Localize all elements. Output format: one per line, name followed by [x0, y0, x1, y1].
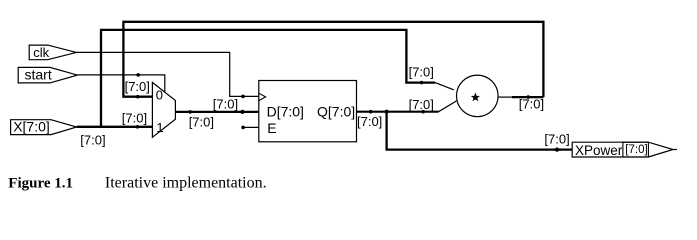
svg-text:E: E	[267, 120, 276, 136]
wire: register Q to multiplier lower input	[357, 111, 439, 113]
dot Q output	[369, 110, 373, 114]
wire: XPower pin tip stub	[673, 149, 677, 151]
wire: mux output to register D	[175, 111, 258, 113]
svg-text:[7:0]: [7:0]	[357, 114, 382, 129]
svg-text:X[7:0]: X[7:0]	[13, 119, 50, 135]
dot XPower branch junction	[385, 110, 389, 114]
wire: enable stub to register E	[242, 126, 259, 128]
wire: clk net	[76, 52, 258, 96]
wire: start net to mux select	[77, 75, 164, 92]
svg-text:XPower: XPower	[575, 143, 623, 158]
svg-text:[7:0]: [7:0]	[625, 144, 647, 156]
junction dots	[136, 73, 559, 152]
wire: multiplier upper input slant stub	[435, 83, 454, 90]
mux M1	[152, 82, 175, 137]
dot E input	[241, 126, 245, 130]
svg-text:[7:0]: [7:0]	[80, 132, 105, 147]
wire: X pin to mux input 1	[77, 126, 153, 128]
svg-text:[7:0]: [7:0]	[213, 97, 238, 112]
svg-text:Iterative implementation.: Iterative implementation.	[105, 174, 267, 191]
svg-text:[7:0]: [7:0]	[544, 131, 569, 146]
dot clk at register	[241, 95, 245, 99]
wire: multiplier lower input slant stub	[439, 101, 457, 112]
dot start-select	[136, 73, 140, 77]
input pin start	[18, 67, 77, 83]
svg-text:Figure 1.1: Figure 1.1	[8, 175, 73, 191]
svg-text:D[7:0]: D[7:0]	[267, 104, 304, 120]
wire: multiplier output bus	[512, 96, 543, 98]
svg-text:1: 1	[156, 120, 163, 135]
multiplier U2	[457, 75, 499, 117]
dot multiplier upper input	[420, 81, 424, 85]
dot mux output	[188, 110, 192, 114]
bus width labels [7:0]	[80, 64, 569, 147]
input pin clk	[29, 45, 76, 60]
wire: multiplier output thin stub	[498, 96, 513, 98]
dot mux1 input	[136, 125, 140, 129]
wire: X bus line (X pin up and across to multiplier upper input)	[101, 30, 435, 127]
wire: XPower branch from Q wire down and right to output pin	[387, 112, 573, 150]
svg-text:start: start	[25, 66, 52, 82]
svg-text:[7:0]: [7:0]	[519, 97, 544, 112]
dot D input	[240, 110, 244, 114]
dot XPower pin input	[555, 148, 559, 152]
dot multiplier lower input	[421, 110, 425, 114]
svg-text:Q[7:0]: Q[7:0]	[317, 104, 355, 120]
dot multiplier output	[526, 95, 530, 99]
svg-text:[7:0]: [7:0]	[125, 79, 150, 94]
svg-text:[7:0]: [7:0]	[189, 115, 214, 130]
svg-text:clk: clk	[33, 45, 49, 60]
XPower pin inner bus box	[623, 142, 649, 157]
svg-text:[7:0]: [7:0]	[409, 97, 434, 112]
clock pin triangle	[259, 93, 266, 100]
svg-text:0: 0	[156, 87, 163, 102]
wire: feedback bus top line (multiplier output to mux input 0)	[123, 22, 543, 97]
svg-text:[7:0]: [7:0]	[409, 64, 434, 79]
svg-text:[7:0]: [7:0]	[122, 110, 147, 125]
dot mux0 input	[136, 95, 140, 99]
input pin X[7:0]	[11, 120, 77, 135]
output pin XPower[7:0]	[572, 142, 673, 157]
register U1 (D flip-flop with enable)	[259, 81, 357, 142]
multiplier U2 asterisk symbol	[472, 93, 480, 100]
